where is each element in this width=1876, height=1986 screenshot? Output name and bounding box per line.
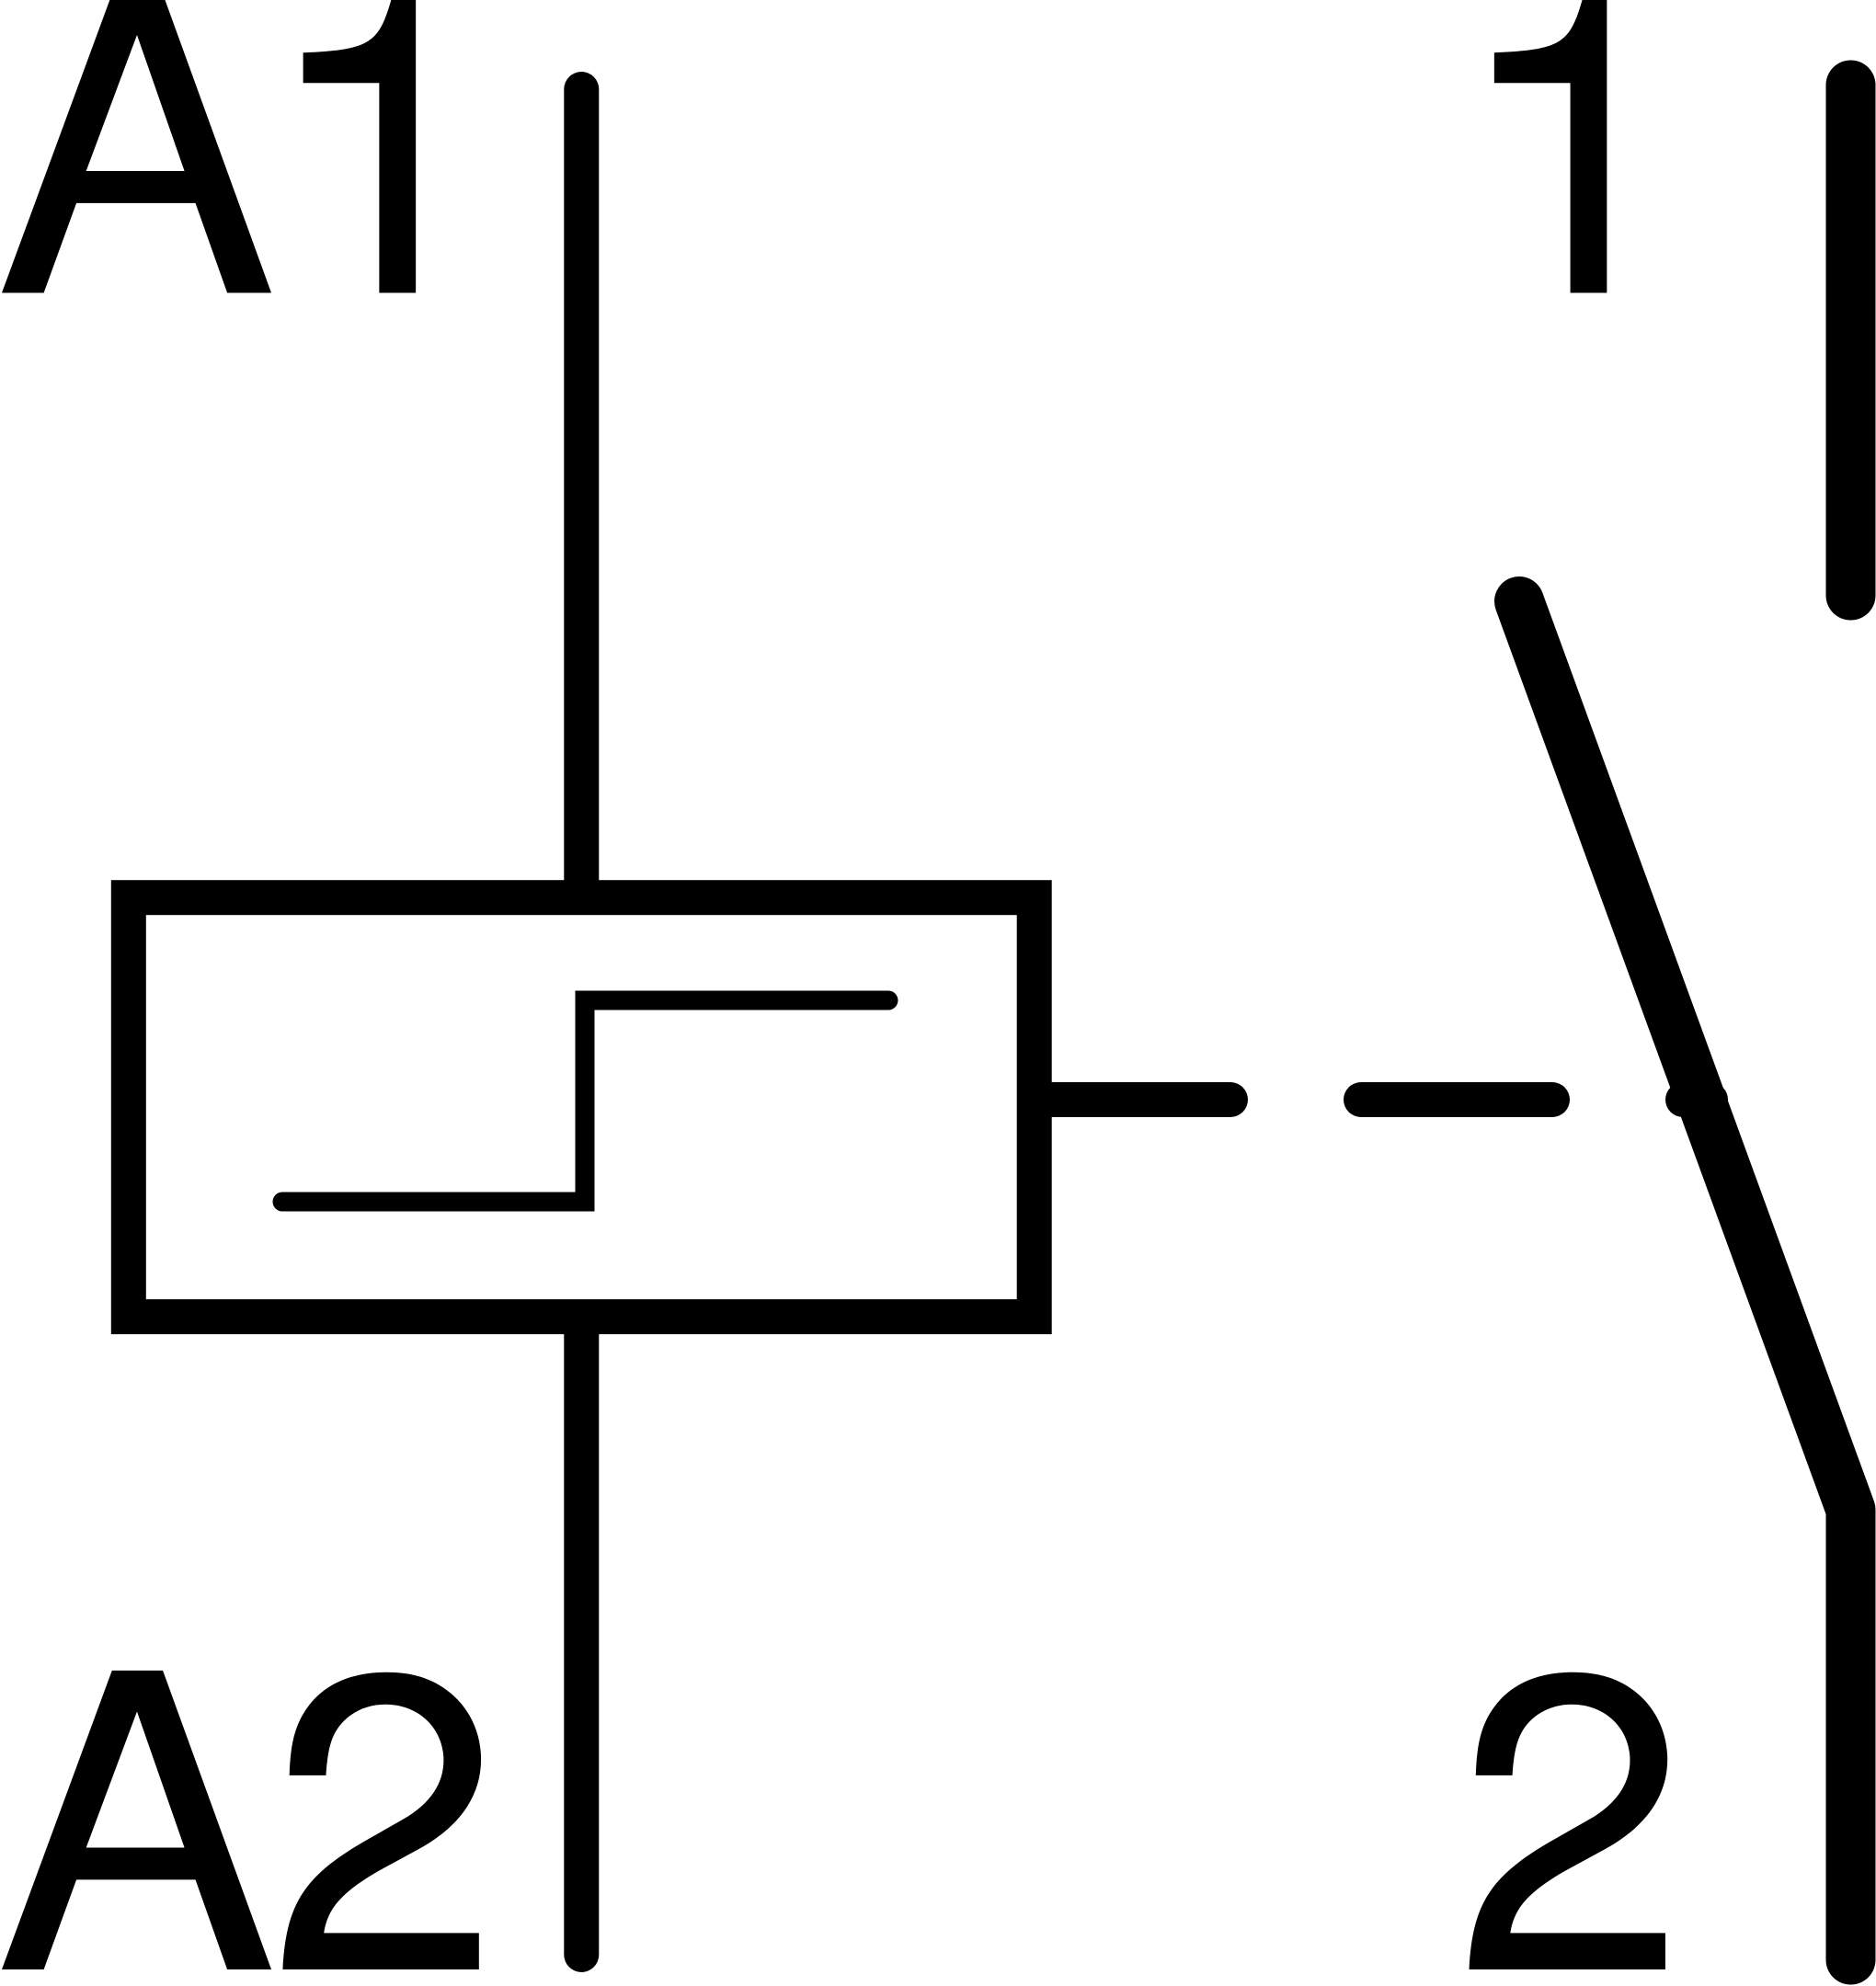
- terminal label A2: [2, 1671, 481, 1969]
- terminal label 1 (contact top): [1494, 0, 1607, 293]
- contact terminal 1 wire: [1826, 86, 1876, 596]
- wire coil K1 to A2: [564, 1306, 599, 1955]
- actuator link middle dash: [1361, 1082, 1552, 1117]
- actuator link dash at contact blade: [1683, 1082, 1710, 1117]
- latching step symbol inside coil: [282, 1000, 888, 1202]
- coil K1 (impulse relay coil box): [129, 897, 1035, 1317]
- terminal label A1: [2, 0, 416, 292]
- terminal label 2 (contact bottom): [1470, 1672, 1668, 1969]
- switch contact blade (NO contact between terminals 1 and 2): [1519, 601, 1851, 1960]
- actuator link stub from coil: [1035, 1082, 1230, 1117]
- wire A1 to coil K1: [564, 89, 599, 910]
